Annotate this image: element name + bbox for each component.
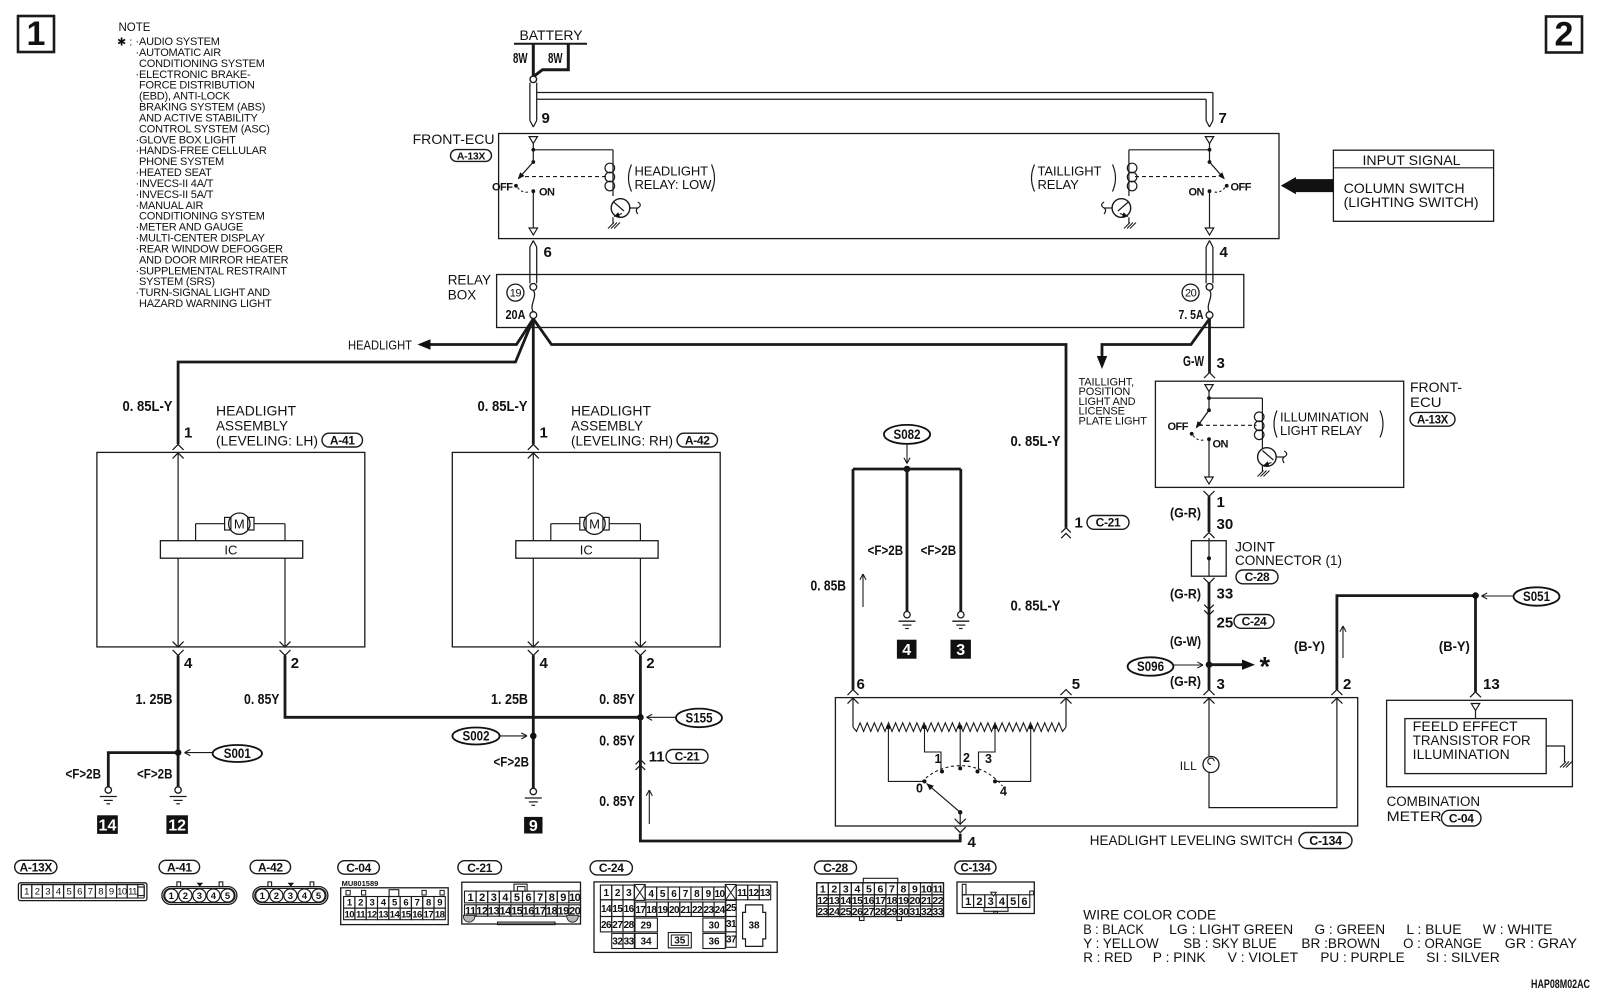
svg-text:1: 1 <box>184 425 192 442</box>
svg-text:<F>2B: <F>2B <box>921 542 957 558</box>
svg-text:IC: IC <box>580 542 593 557</box>
svg-text:9: 9 <box>542 110 550 127</box>
svg-text:C-24: C-24 <box>599 861 624 875</box>
svg-text:3: 3 <box>843 884 849 896</box>
svg-text:19: 19 <box>657 905 668 916</box>
svg-text:1. 25B: 1. 25B <box>491 691 528 708</box>
svg-text:12: 12 <box>367 909 377 920</box>
svg-text:S002: S002 <box>463 729 490 744</box>
svg-text:20: 20 <box>669 905 680 916</box>
svg-text:6: 6 <box>525 892 531 904</box>
svg-text:(LEVELING: RH): (LEVELING: RH) <box>571 433 673 449</box>
svg-text:8: 8 <box>549 892 555 904</box>
svg-text:1: 1 <box>467 892 473 904</box>
svg-text:1: 1 <box>965 896 971 908</box>
svg-text:12: 12 <box>168 817 186 834</box>
svg-text:10: 10 <box>117 887 127 898</box>
svg-text:ASSEMBLY: ASSEMBLY <box>216 418 289 434</box>
svg-text:2: 2 <box>274 891 279 902</box>
svg-text:ILL: ILL <box>1180 759 1197 773</box>
svg-text:9: 9 <box>912 884 918 896</box>
svg-text:COMBINATION: COMBINATION <box>1387 794 1481 809</box>
svg-text:13: 13 <box>378 909 388 920</box>
svg-text:9: 9 <box>529 818 538 835</box>
svg-text:3: 3 <box>288 891 293 902</box>
svg-text:OFF: OFF <box>1231 181 1252 193</box>
svg-text:10: 10 <box>714 889 725 900</box>
svg-text:7: 7 <box>537 892 543 904</box>
svg-text:METER: METER <box>1387 809 1442 824</box>
svg-text:A-42: A-42 <box>685 433 710 447</box>
svg-text:INPUT SIGNAL: INPUT SIGNAL <box>1363 152 1461 168</box>
svg-text:SB : SKY BLUE: SB : SKY BLUE <box>1183 936 1277 951</box>
svg-text:3: 3 <box>988 896 994 908</box>
svg-text:M: M <box>234 516 245 531</box>
svg-text:RELAY: RELAY <box>1038 177 1080 192</box>
svg-text:(B-Y): (B-Y) <box>1439 639 1470 654</box>
svg-text:FRONT-: FRONT- <box>1410 379 1462 395</box>
svg-text:37: 37 <box>726 935 737 946</box>
svg-text:33: 33 <box>1217 586 1234 603</box>
svg-text:1: 1 <box>260 891 266 902</box>
svg-text:10: 10 <box>344 909 354 920</box>
svg-text:5: 5 <box>866 884 872 896</box>
svg-text:31: 31 <box>909 906 920 918</box>
svg-text:1. 25B: 1. 25B <box>136 691 173 708</box>
svg-text:17: 17 <box>534 905 546 917</box>
svg-text:0. 85L-Y: 0. 85L-Y <box>1011 598 1061 615</box>
svg-text:C-04: C-04 <box>346 861 371 875</box>
svg-text:6: 6 <box>77 887 82 898</box>
svg-text:SI : SILVER: SI : SILVER <box>1426 950 1500 965</box>
svg-text:4: 4 <box>1000 785 1007 799</box>
svg-text:15: 15 <box>511 905 523 917</box>
svg-text:<F>2B: <F>2B <box>66 766 102 782</box>
svg-text:O : ORANGE: O : ORANGE <box>1403 936 1482 951</box>
svg-text:RELAY: RELAY <box>448 273 491 288</box>
svg-text:32: 32 <box>921 906 932 918</box>
svg-text:M: M <box>589 516 600 531</box>
svg-text:CONNECTOR (1): CONNECTOR (1) <box>1235 553 1342 568</box>
svg-text:BR :BROWN: BR :BROWN <box>1301 936 1380 951</box>
svg-text:A-13X: A-13X <box>457 150 486 162</box>
svg-text:C-21: C-21 <box>1096 516 1121 530</box>
svg-text:4: 4 <box>540 655 549 672</box>
svg-text:11: 11 <box>933 884 944 896</box>
svg-text:4: 4 <box>56 887 61 898</box>
svg-text:14: 14 <box>390 909 401 920</box>
svg-text:23: 23 <box>703 905 714 916</box>
svg-text:11: 11 <box>356 909 366 920</box>
svg-text:1: 1 <box>1075 515 1083 532</box>
svg-text:3: 3 <box>1217 676 1225 693</box>
svg-text:9: 9 <box>109 887 114 898</box>
svg-text:6: 6 <box>403 898 408 909</box>
svg-text:HEADLIGHT: HEADLIGHT <box>216 403 296 419</box>
svg-text:2: 2 <box>646 655 654 672</box>
svg-text:B : BLACK: B : BLACK <box>1083 922 1144 937</box>
svg-text:(LIGHTING SWITCH): (LIGHTING SWITCH) <box>1344 194 1479 210</box>
svg-text:HAZARD WARNING LIGHT: HAZARD WARNING LIGHT <box>139 298 272 310</box>
svg-text:(G-R): (G-R) <box>1170 587 1201 602</box>
svg-text:8W: 8W <box>548 50 563 67</box>
svg-text:S082: S082 <box>894 427 921 442</box>
svg-text:14: 14 <box>99 817 117 834</box>
svg-text:11: 11 <box>128 887 137 898</box>
svg-text:ON: ON <box>1213 439 1229 451</box>
svg-text:0. 85B: 0. 85B <box>811 578 847 595</box>
svg-text:A-41: A-41 <box>167 860 192 874</box>
svg-text:C-134: C-134 <box>960 863 991 875</box>
svg-text:5: 5 <box>67 887 72 898</box>
svg-text:21: 21 <box>680 905 691 916</box>
svg-text:C-28: C-28 <box>823 861 848 875</box>
svg-text:G-W: G-W <box>1183 353 1205 370</box>
svg-text:18: 18 <box>546 905 558 917</box>
svg-text:19: 19 <box>510 288 522 300</box>
svg-text:15: 15 <box>401 909 412 920</box>
svg-text:4: 4 <box>854 884 860 896</box>
svg-text:MU801589: MU801589 <box>342 879 379 888</box>
svg-text:8: 8 <box>426 898 431 909</box>
svg-text:LIGHT RELAY: LIGHT RELAY <box>1280 423 1363 438</box>
svg-text:HEADLIGHT: HEADLIGHT <box>348 339 412 353</box>
svg-text:7: 7 <box>415 898 420 909</box>
svg-text:2: 2 <box>479 892 485 904</box>
svg-text:FRONT-ECU: FRONT-ECU <box>413 131 495 147</box>
svg-text:C-04: C-04 <box>1449 811 1474 825</box>
svg-text:2: 2 <box>976 896 982 908</box>
svg-text:S155: S155 <box>686 711 713 726</box>
svg-text:C-24: C-24 <box>1242 615 1267 629</box>
svg-text:7: 7 <box>88 887 93 898</box>
svg-text:C-28: C-28 <box>1245 570 1270 584</box>
svg-text:2: 2 <box>1343 676 1351 693</box>
svg-text:0. 85L-Y: 0. 85L-Y <box>1011 433 1061 450</box>
svg-text:13: 13 <box>1483 676 1500 693</box>
svg-text:3: 3 <box>45 887 50 898</box>
svg-text:IC: IC <box>224 542 237 557</box>
svg-text:28: 28 <box>875 906 886 918</box>
svg-text:7: 7 <box>889 884 895 896</box>
svg-text:4: 4 <box>1220 244 1229 261</box>
svg-text:4: 4 <box>968 834 977 851</box>
svg-text:16: 16 <box>412 909 422 920</box>
svg-text:PLATE LIGHT: PLATE LIGHT <box>1079 415 1148 427</box>
svg-text:16: 16 <box>624 904 635 915</box>
svg-text:3: 3 <box>491 892 497 904</box>
svg-text:OFF: OFF <box>1168 421 1189 433</box>
svg-text:12: 12 <box>476 905 488 917</box>
svg-text:29: 29 <box>640 921 652 932</box>
svg-text:NOTE: NOTE <box>119 22 151 34</box>
svg-text:C-21: C-21 <box>467 861 492 875</box>
svg-text:28: 28 <box>624 920 635 931</box>
svg-text:(LEVELING: LH): (LEVELING: LH) <box>216 433 318 449</box>
svg-text:12: 12 <box>748 888 759 899</box>
svg-text:A-13X: A-13X <box>20 860 53 874</box>
svg-text:1: 1 <box>540 425 548 442</box>
svg-text:13: 13 <box>760 888 771 899</box>
svg-text:4: 4 <box>184 655 193 672</box>
svg-text:ILLUMINATION: ILLUMINATION <box>1413 747 1510 762</box>
svg-text:27: 27 <box>612 920 623 931</box>
svg-text:22: 22 <box>692 905 703 916</box>
svg-text:3: 3 <box>1217 355 1225 372</box>
svg-text:C-21: C-21 <box>675 750 700 764</box>
svg-text:TRANSISTOR FOR: TRANSISTOR FOR <box>1413 733 1531 748</box>
svg-text:S051: S051 <box>1523 589 1550 604</box>
svg-text:BATTERY: BATTERY <box>520 28 583 43</box>
svg-text:2: 2 <box>183 891 188 902</box>
svg-text:ON: ON <box>1189 187 1205 199</box>
svg-text:17: 17 <box>635 905 646 916</box>
svg-text:8: 8 <box>98 887 103 898</box>
svg-text:OFF: OFF <box>492 181 513 193</box>
svg-text:<F>2B: <F>2B <box>868 542 904 558</box>
svg-text:1: 1 <box>169 891 175 902</box>
svg-text:0. 85Y: 0. 85Y <box>599 691 635 708</box>
svg-text:2: 2 <box>35 887 40 898</box>
svg-text:HEADLIGHT LEVELING SWITCH: HEADLIGHT LEVELING SWITCH <box>1090 832 1293 848</box>
svg-text:P : PINK: P : PINK <box>1153 950 1206 965</box>
svg-text:RELAY: LOW: RELAY: LOW <box>635 177 713 192</box>
svg-text:2: 2 <box>291 655 299 672</box>
svg-text:S096: S096 <box>1137 659 1164 674</box>
svg-text:5: 5 <box>225 891 231 902</box>
svg-text:R : RED: R : RED <box>1083 950 1132 965</box>
svg-text:27: 27 <box>863 906 874 918</box>
svg-text:V : VIOLET: V : VIOLET <box>1228 950 1299 965</box>
svg-text:33: 33 <box>624 937 635 948</box>
svg-text:3: 3 <box>369 898 374 909</box>
svg-text:0. 85L-Y: 0. 85L-Y <box>123 398 173 415</box>
svg-text:24: 24 <box>829 906 840 918</box>
svg-text:5: 5 <box>514 892 520 904</box>
svg-text:<F>2B: <F>2B <box>137 766 173 782</box>
svg-text:0. 85Y: 0. 85Y <box>244 691 280 708</box>
svg-text:29: 29 <box>886 906 897 918</box>
svg-text:1: 1 <box>935 752 942 766</box>
svg-text:23: 23 <box>817 906 828 918</box>
svg-text:A-41: A-41 <box>330 433 355 447</box>
svg-text:11: 11 <box>737 888 748 899</box>
svg-text:GR : GRAY: GR : GRAY <box>1505 936 1577 951</box>
svg-text:35: 35 <box>674 936 686 947</box>
svg-text:2: 2 <box>831 884 837 896</box>
svg-text:20A: 20A <box>506 308 526 322</box>
svg-text:ASSEMBLY: ASSEMBLY <box>571 418 644 434</box>
svg-text:PU : PURPLE: PU : PURPLE <box>1320 950 1404 965</box>
svg-text:38: 38 <box>748 921 760 932</box>
svg-text:13: 13 <box>488 905 500 917</box>
svg-text:8: 8 <box>901 884 907 896</box>
svg-text:4: 4 <box>902 642 911 659</box>
svg-text:32: 32 <box>612 937 623 948</box>
svg-text:2: 2 <box>1555 16 1574 54</box>
svg-text:1: 1 <box>820 884 826 896</box>
svg-text:34: 34 <box>640 937 652 948</box>
svg-text:✱ :: ✱ : <box>117 37 132 49</box>
svg-text:33: 33 <box>932 906 943 918</box>
svg-text:0. 85Y: 0. 85Y <box>599 793 635 810</box>
svg-text:25: 25 <box>726 903 737 914</box>
svg-text:(G-W): (G-W) <box>1170 634 1201 649</box>
svg-text:WIRE COLOR CODE: WIRE COLOR CODE <box>1083 908 1216 923</box>
svg-text:W : WHITE: W : WHITE <box>1483 922 1553 937</box>
svg-text:16: 16 <box>523 905 535 917</box>
svg-text:6: 6 <box>1021 896 1027 908</box>
svg-text:20: 20 <box>1185 288 1197 300</box>
svg-text:10: 10 <box>569 892 581 904</box>
svg-text:BOX: BOX <box>448 288 477 303</box>
svg-text:FEELD EFFECT: FEELD EFFECT <box>1413 719 1518 734</box>
svg-text:(B-Y): (B-Y) <box>1294 639 1325 654</box>
svg-text:8W: 8W <box>513 50 528 67</box>
svg-text:0. 85L-Y: 0. 85L-Y <box>478 398 528 415</box>
svg-text:LG : LIGHT GREEN: LG : LIGHT GREEN <box>1169 922 1293 937</box>
svg-text:36: 36 <box>708 937 720 948</box>
svg-text:31: 31 <box>726 919 737 930</box>
svg-text:3: 3 <box>985 752 992 766</box>
svg-text:18: 18 <box>646 905 657 916</box>
svg-text:5: 5 <box>1010 896 1016 908</box>
svg-text:6: 6 <box>544 244 552 261</box>
svg-text:A-13X: A-13X <box>1417 414 1449 426</box>
svg-text:17: 17 <box>424 909 434 920</box>
svg-text:7: 7 <box>1219 110 1227 127</box>
svg-text:1: 1 <box>27 15 46 53</box>
svg-text:1: 1 <box>1217 494 1225 511</box>
svg-text:3: 3 <box>956 642 965 659</box>
svg-text:4: 4 <box>211 891 217 902</box>
svg-text:30: 30 <box>708 921 720 932</box>
svg-text:S001: S001 <box>224 746 251 761</box>
svg-text:3: 3 <box>197 891 202 902</box>
svg-text:11: 11 <box>649 749 665 766</box>
svg-text:C-134: C-134 <box>1309 834 1342 848</box>
svg-text:(G-R): (G-R) <box>1170 674 1201 689</box>
svg-text:2: 2 <box>358 898 363 909</box>
svg-text:9: 9 <box>560 892 566 904</box>
svg-text:<F>2B: <F>2B <box>494 754 530 770</box>
svg-text:4: 4 <box>302 891 308 902</box>
svg-text:30: 30 <box>1217 516 1234 533</box>
svg-text:25: 25 <box>1217 615 1234 632</box>
svg-text:G : GREEN: G : GREEN <box>1315 922 1386 937</box>
svg-text:*: * <box>1260 652 1271 682</box>
svg-text:HAP08M02AC: HAP08M02AC <box>1531 977 1590 991</box>
svg-text:2: 2 <box>963 751 970 765</box>
svg-text:ON: ON <box>539 187 555 199</box>
svg-text:5: 5 <box>1072 676 1080 693</box>
svg-text:18: 18 <box>435 909 445 920</box>
svg-text:L : BLUE: L : BLUE <box>1406 922 1461 937</box>
svg-text:5: 5 <box>316 891 322 902</box>
svg-text:A-42: A-42 <box>258 860 283 874</box>
svg-text:0: 0 <box>916 782 923 796</box>
svg-text:25: 25 <box>840 906 851 918</box>
svg-text:0. 85Y: 0. 85Y <box>599 733 635 750</box>
svg-text:10: 10 <box>921 884 932 896</box>
svg-text:15: 15 <box>612 904 623 915</box>
svg-text:Y : YELLOW: Y : YELLOW <box>1083 936 1159 951</box>
svg-text:1: 1 <box>24 887 29 898</box>
svg-text:ECU: ECU <box>1410 394 1442 410</box>
svg-text:7. 5A: 7. 5A <box>1179 308 1204 322</box>
svg-text:9: 9 <box>437 898 442 909</box>
svg-text:6: 6 <box>877 884 883 896</box>
svg-text:(G-R): (G-R) <box>1170 506 1201 521</box>
svg-text:14: 14 <box>601 904 612 915</box>
svg-text:24: 24 <box>715 905 726 916</box>
svg-text:HEADLIGHT: HEADLIGHT <box>571 403 651 419</box>
svg-text:26: 26 <box>601 920 612 931</box>
svg-text:6: 6 <box>857 676 865 693</box>
